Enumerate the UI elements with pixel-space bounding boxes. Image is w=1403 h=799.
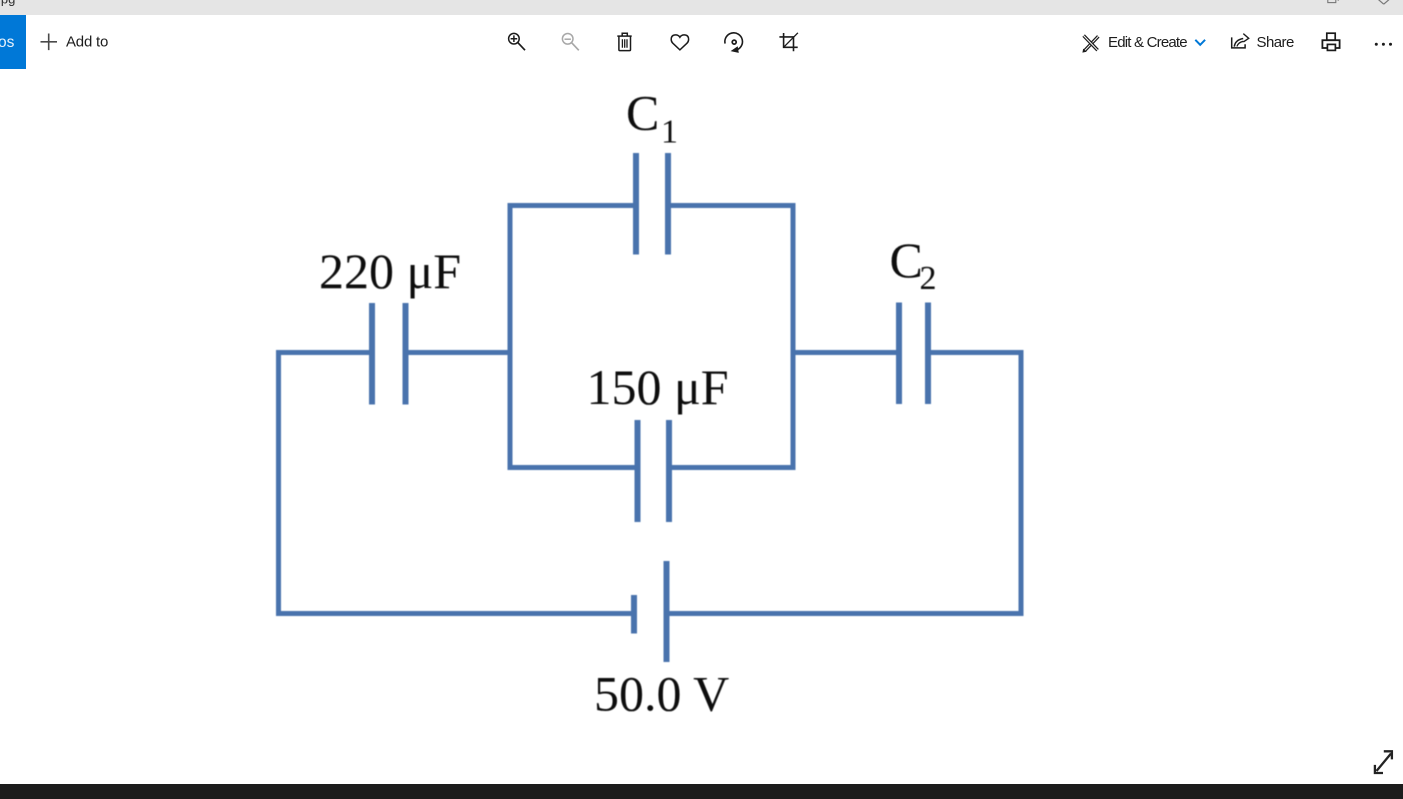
svg-text:50.0 V: 50.0 V xyxy=(594,666,729,722)
title bar xyxy=(0,0,1403,15)
battery short plate (negative) xyxy=(631,595,637,634)
Edit & Create icon (pencil x brush) xyxy=(1082,36,1098,53)
toolbar icon: favourite (heart) xyxy=(671,35,688,50)
battery long plate (positive) xyxy=(664,561,670,662)
fullscreen expand arrow xyxy=(1375,751,1392,773)
svg-text:C: C xyxy=(626,85,659,141)
wire: box top edge right segment xyxy=(671,203,794,208)
window restore button (partial) xyxy=(1328,0,1338,3)
toolbar icon: zoom in xyxy=(509,33,525,50)
wire: box top edge left segment xyxy=(510,203,634,208)
wire: box right edge xyxy=(791,203,796,470)
capacitor C1 plates xyxy=(636,153,668,255)
wire: box left edge xyxy=(508,203,513,470)
capacitor 150uF plates xyxy=(638,420,670,522)
wire: box bottom edge left segment xyxy=(510,465,635,470)
svg-text:150 μF: 150 μF xyxy=(587,359,729,415)
accent chevron xyxy=(1195,40,1205,45)
svg-text:jpg: jpg xyxy=(0,0,15,7)
svg-text:2: 2 xyxy=(920,260,937,297)
toolbar icon: crop xyxy=(779,33,798,51)
wire: outer right vertical xyxy=(1019,350,1024,616)
wire: right branch, box to C2 xyxy=(793,350,897,355)
svg-text:Add to: Add to xyxy=(66,34,108,51)
wire: bottom left segment xyxy=(276,611,632,616)
wire: outer left vertical xyxy=(276,350,281,616)
wire: left branch, outer to 220uF xyxy=(279,350,370,355)
wire: box bottom edge right segment xyxy=(672,465,794,470)
wire: bottom right segment xyxy=(669,611,1024,616)
Add to button: plus icon xyxy=(41,34,58,51)
toolbar icon: delete (trash) xyxy=(617,33,631,50)
toolbar icon: rotate xyxy=(725,33,743,53)
wire: 220uF to box xyxy=(408,350,510,355)
more (...) button xyxy=(1375,43,1392,46)
Print icon xyxy=(1322,33,1339,50)
wire: C2 to outer right xyxy=(931,350,1022,355)
capacitor 220uF plates xyxy=(372,303,406,405)
svg-text:os: os xyxy=(0,34,15,51)
toolbar icon: zoom out (disabled) xyxy=(562,34,578,51)
capacitor C2 plates xyxy=(899,303,928,405)
svg-text:1: 1 xyxy=(661,114,678,151)
Share icon xyxy=(1232,34,1249,48)
svg-text:C: C xyxy=(890,232,923,288)
window close button (partial) xyxy=(1377,0,1390,4)
svg-text:Edit & Create: Edit & Create xyxy=(1108,34,1187,51)
Photos nav tile xyxy=(0,15,26,69)
svg-text:Share: Share xyxy=(1257,34,1294,51)
bottom film strip bar xyxy=(0,784,1403,799)
svg-text:220 μF: 220 μF xyxy=(319,243,461,299)
